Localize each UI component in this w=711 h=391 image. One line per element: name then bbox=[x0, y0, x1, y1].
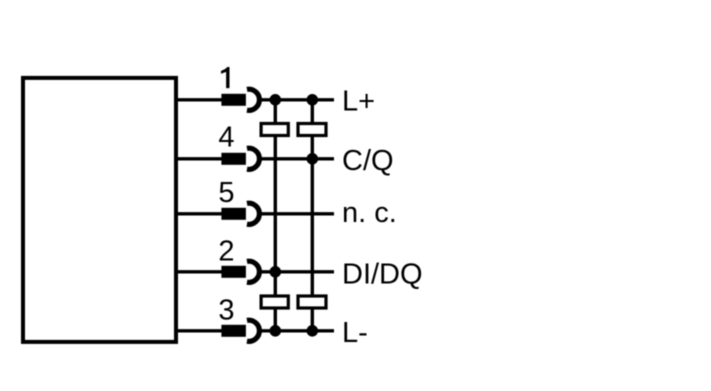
svg-text:C/Q: C/Q bbox=[342, 145, 394, 177]
junction dot DI/DQ left bbox=[270, 266, 282, 278]
junction dot L+ right bbox=[307, 94, 319, 106]
bus line left vertical bbox=[274, 100, 277, 331]
wire pin5 from box bbox=[174, 212, 224, 215]
svg-text:5: 5 bbox=[218, 177, 234, 209]
bus line right vertical bbox=[311, 100, 314, 331]
device box U1 bbox=[23, 78, 176, 342]
svg-text:L+: L+ bbox=[342, 85, 375, 117]
connector socket arc pin1 bbox=[247, 89, 259, 110]
connector blade pin4 bbox=[221, 153, 246, 165]
connector blade pin2 bbox=[221, 266, 246, 278]
resistor R2 upper right bbox=[298, 124, 326, 136]
junction dot L- right bbox=[307, 325, 319, 337]
connector socket arc pin5 bbox=[247, 203, 259, 224]
resistor R3 lower left bbox=[261, 296, 288, 308]
connector socket arc pin4 bbox=[247, 148, 259, 169]
svg-text:2: 2 bbox=[218, 236, 234, 268]
wire pin4 from box bbox=[174, 157, 224, 160]
connector blade pin3 bbox=[221, 325, 246, 337]
wire L- bbox=[259, 329, 334, 332]
junction dot C/Q right bbox=[307, 153, 319, 165]
resistor R4 lower right bbox=[298, 296, 326, 308]
wire n.c. bbox=[259, 212, 334, 215]
junction dot L- left bbox=[270, 325, 282, 337]
wire pin1 from box bbox=[174, 98, 224, 101]
wire pin2 from box bbox=[174, 270, 224, 273]
connector blade pin5 bbox=[221, 208, 246, 220]
connector socket arc pin2 bbox=[247, 261, 259, 282]
svg-text:L-: L- bbox=[342, 317, 368, 349]
svg-text:DI/DQ: DI/DQ bbox=[342, 258, 423, 290]
wire pin3 from box bbox=[174, 329, 224, 332]
wire C/Q bbox=[259, 157, 334, 160]
junction dot L+ left bbox=[270, 94, 282, 106]
svg-text:4: 4 bbox=[218, 122, 234, 154]
svg-text:3: 3 bbox=[218, 295, 234, 327]
wire L+ bbox=[259, 98, 334, 101]
pin number 1 bbox=[221, 67, 230, 88]
svg-text:n. c.: n. c. bbox=[342, 197, 397, 229]
wire DI/DQ bbox=[259, 270, 334, 273]
connector blade pin1 bbox=[221, 94, 246, 106]
connector socket arc pin3 bbox=[247, 320, 259, 341]
resistor R1 upper left bbox=[261, 124, 288, 136]
